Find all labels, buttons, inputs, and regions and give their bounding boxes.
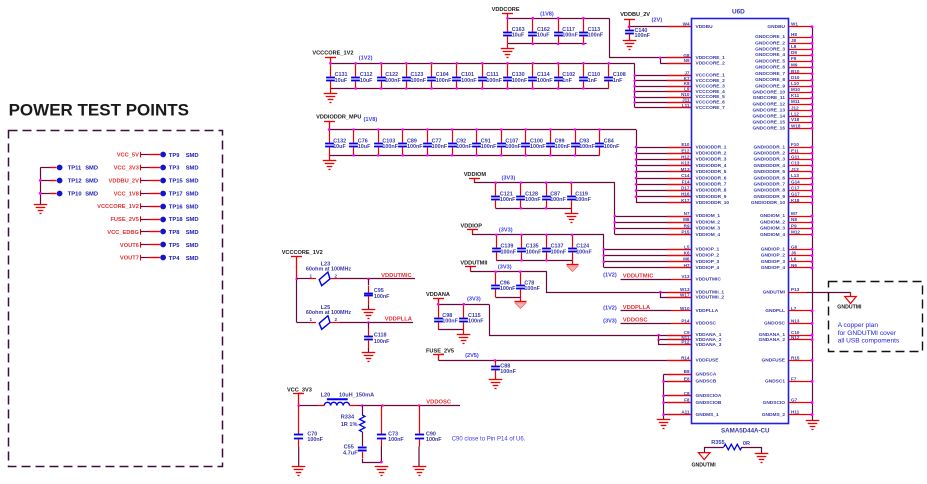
wire pin V18 to GND bus [789, 122, 813, 124]
svg-text:100nF: 100nF [388, 437, 404, 443]
wire VDDCORE gnd bus [508, 43, 587, 45]
svg-text:VCCCORE_5: VCCCORE_5 [696, 94, 726, 100]
wire FUSE_2V5 to pin R14 [438, 360, 692, 362]
capacitor C108 [604, 64, 613, 89]
wire TP12 to ground rail [40, 180, 50, 182]
wire pin G7 to GND bus [789, 402, 813, 404]
svg-text:100nF: 100nF [468, 319, 484, 325]
svg-text:60ohm at 100MHz: 60ohm at 100MHz [306, 267, 352, 273]
svg-text:GNDSCIOB: GNDSCIOB [696, 400, 722, 406]
svg-text:GNDCORE_11: GNDCORE_11 [753, 95, 786, 101]
svg-text:100nF: 100nF [555, 144, 571, 150]
wire pin J6 to GND bus [789, 255, 813, 257]
svg-text:GNDSCIOA: GNDSCIOA [696, 393, 722, 399]
ground [292, 467, 306, 476]
wire pin F10 to GND bus [789, 147, 813, 149]
svg-text:VCC_EDBG: VCC_EDBG [107, 230, 139, 236]
svg-text:VDDIOP_4: VDDIOP_4 [696, 265, 720, 271]
capacitor C128 [516, 183, 525, 209]
svg-text:H12: H12 [681, 155, 690, 160]
capacitor C123 [402, 64, 411, 89]
wire ground rail vertical [40, 168, 42, 205]
svg-text:GNDCORE_12: GNDCORE_12 [752, 101, 785, 107]
dashed annotation box [829, 282, 923, 352]
svg-text:J7: J7 [684, 70, 690, 75]
svg-text:M8: M8 [683, 217, 690, 222]
capacitor C107 [497, 130, 506, 156]
wire into annotation box [850, 292, 852, 296]
svg-text:FUSE_2V5: FUSE_2V5 [426, 349, 454, 355]
svg-text:GNDANA_2: GNDANA_2 [759, 337, 786, 343]
svg-text:VDDIODDR_5: VDDIODDR_5 [696, 169, 727, 175]
wire pin M9 to GND bus [789, 67, 813, 69]
wire pin M11 to GND bus [789, 104, 813, 106]
svg-text:VDDIOP_3: VDDIOP_3 [696, 259, 720, 265]
wire pin G11 to GND bus [789, 159, 813, 161]
svg-text:VDDCORE: VDDCORE [492, 7, 520, 13]
svg-text:SMD: SMD [186, 153, 199, 159]
ground [330, 88, 332, 93]
power symbol VCCCORE_1V2 [325, 58, 336, 64]
svg-text:SMD: SMD [186, 217, 199, 223]
svg-text:H16: H16 [681, 192, 690, 197]
capacitor C124 [568, 235, 577, 261]
svg-text:GNDCORE_1: GNDCORE_1 [755, 34, 785, 40]
power symbol VDDIOM [469, 179, 480, 183]
svg-text:D17: D17 [681, 186, 690, 191]
capacitor C102 [554, 64, 563, 89]
wire VDDIOP top bus [472, 234, 604, 236]
capacitor C140 [625, 27, 634, 41]
svg-text:E10: E10 [681, 142, 690, 147]
power ground GNDUTMI [845, 297, 857, 304]
test point TP12 SMD [57, 178, 63, 184]
wire pin H8 to GND bus [789, 37, 813, 39]
wire pin M10 to GND bus [789, 92, 813, 94]
svg-text:100nF: 100nF [562, 33, 578, 39]
svg-text:M6: M6 [683, 257, 690, 262]
svg-text:GNDCORE_13: GNDCORE_13 [752, 108, 785, 114]
wire VCCCORE_1V2 to TP16 [140, 203, 142, 209]
svg-text:M13: M13 [681, 167, 690, 172]
wire TP11 to ground rail [40, 167, 50, 169]
wire GNDUTMI net to copper plan [789, 292, 807, 294]
svg-text:P12: P12 [681, 340, 690, 345]
svg-text:VDDBU: VDDBU [696, 24, 714, 30]
svg-text:100nF: 100nF [456, 144, 472, 150]
svg-text:100nF: 100nF [407, 144, 423, 150]
svg-text:100nF: 100nF [481, 144, 497, 150]
wire pin L12 to GND bus [789, 116, 813, 118]
svg-text:K11: K11 [791, 93, 800, 98]
capacitor C122 [377, 64, 386, 89]
capacitor C73 [377, 406, 386, 447]
svg-text:100nF: 100nF [579, 144, 595, 150]
svg-text:L5: L5 [684, 244, 690, 249]
svg-text:GNDIOM_2: GNDIOM_2 [760, 219, 785, 225]
ground [489, 380, 503, 389]
wire VDDBU to pin W4 [629, 26, 692, 28]
svg-text:K8: K8 [684, 81, 690, 86]
svg-text:100nF: 100nF [501, 249, 517, 255]
svg-text:VCCCORE_3: VCCCORE_3 [696, 83, 726, 89]
svg-text:GNDSCIO: GNDSCIO [763, 400, 786, 406]
wire VCC_3V3 node [299, 405, 310, 407]
capacitor C93 [571, 130, 580, 156]
svg-text:VCCCORE_1V2: VCCCORE_1V2 [312, 51, 353, 57]
capacitor C137 [542, 235, 551, 261]
wire VDDCORE top bus [508, 18, 610, 20]
wire pin M7 to GND bus [789, 216, 813, 218]
svg-text:TP3: TP3 [169, 166, 180, 172]
capacitor C131 [326, 64, 335, 89]
capacitor C99 [546, 130, 555, 156]
svg-text:VDDIOP_1: VDDIOP_1 [696, 247, 720, 253]
svg-text:V13: V13 [681, 274, 690, 279]
test point TP11 SMD [57, 165, 63, 171]
svg-text:A11: A11 [681, 410, 690, 415]
svg-text:U6D: U6D [732, 9, 745, 16]
power symbol VDDBU_2V [624, 20, 635, 27]
wire pin N12 to GND bus [789, 339, 813, 341]
svg-text:1nF: 1nF [588, 78, 598, 84]
svg-text:VCCCORE_1: VCCCORE_1 [696, 73, 726, 79]
svg-text:GNDCORE_7: GNDCORE_7 [755, 71, 785, 77]
power symbol FUSE_2V5 [433, 355, 444, 361]
svg-text:GNDUTMI: GNDUTMI [837, 305, 862, 311]
svg-text:VCC_1V8: VCC_1V8 [114, 191, 139, 197]
ground [413, 467, 427, 476]
svg-text:1R 1%: 1R 1% [341, 422, 358, 428]
wire VDDIODDR gnd bus [329, 155, 600, 157]
ground [329, 155, 331, 160]
svg-text:P15: P15 [681, 230, 690, 235]
wire pin F7 to GND bus [789, 381, 813, 383]
svg-text:M10: M10 [791, 87, 800, 92]
capacitor C113 [579, 19, 588, 44]
svg-text:GNDCORE_10: GNDCORE_10 [752, 89, 785, 95]
svg-text:100nF: 100nF [525, 197, 541, 203]
svg-text:D9: D9 [791, 50, 797, 55]
svg-text:100nF: 100nF [524, 286, 540, 292]
svg-text:VDDUTMIC: VDDUTMIC [623, 273, 654, 279]
wire VDDANA top bus [438, 304, 489, 306]
wire pin R15 to GND bus [789, 360, 813, 362]
svg-text:100nF: 100nF [374, 294, 390, 300]
svg-text:GNDIODDR_7: GNDIODDR_7 [754, 182, 786, 188]
test point TP5 SMD [160, 242, 166, 248]
capacitor C88 [491, 361, 500, 380]
svg-text:VDDIODDR_1: VDDIODDR_1 [696, 144, 727, 150]
svg-text:E8: E8 [684, 376, 690, 381]
svg-text:100nF: 100nF [551, 249, 567, 255]
svg-text:100nF: 100nF [442, 319, 458, 325]
svg-text:100nF: 100nF [635, 33, 651, 39]
svg-text:VDDIOM: VDDIOM [464, 172, 487, 178]
capacitor C96 [491, 272, 500, 298]
power symbol VDDIODDR_MPU [324, 122, 335, 130]
ground [572, 260, 574, 265]
svg-text:VDDOSC: VDDOSC [696, 321, 717, 327]
svg-text:100nF: 100nF [588, 33, 604, 39]
capacitor C121 [491, 183, 500, 209]
ground [507, 44, 509, 49]
svg-text:GNDSCB: GNDSCB [696, 379, 717, 385]
ground [362, 310, 376, 319]
junction on ground rail [39, 179, 42, 182]
svg-text:N7: N7 [684, 211, 690, 216]
svg-text:VCCCORE_6: VCCCORE_6 [696, 100, 726, 106]
svg-text:GNDCORE_8: GNDCORE_8 [755, 77, 785, 83]
svg-text:L10: L10 [791, 81, 799, 86]
wire FUSE_2V5 to TP18 [140, 216, 142, 222]
svg-text:P14: P14 [681, 318, 690, 323]
wire VCCCORE_1V2 gnd bus [330, 88, 608, 90]
svg-text:L9: L9 [684, 87, 690, 92]
svg-text:G6: G6 [791, 244, 798, 249]
svg-text:(2V): (2V) [652, 18, 663, 24]
wire VDDUTMII gnd bus [496, 297, 521, 299]
svg-text:VDDIOM_1: VDDIOM_1 [696, 213, 721, 219]
svg-text:TP16: TP16 [169, 204, 184, 210]
svg-text:F8: F8 [684, 398, 690, 403]
svg-text:GNDIODDR_8: GNDIODDR_8 [754, 188, 786, 194]
svg-text:VDDIOM_3: VDDIOM_3 [696, 226, 721, 232]
svg-text:100nF: 100nF [500, 369, 516, 375]
svg-text:N10: N10 [681, 92, 690, 97]
wire pin J13 to GND bus [789, 171, 813, 173]
svg-text:GNDIOM_3: GNDIOM_3 [760, 226, 785, 232]
capacitor C92 [448, 130, 457, 156]
svg-text:R334: R334 [341, 415, 355, 421]
wire VDDIOP to U6D pins [603, 235, 605, 268]
svg-text:F14: F14 [682, 179, 690, 184]
wire pin J8 to GND bus [789, 43, 813, 45]
svg-text:100nF: 100nF [426, 437, 442, 443]
capacitor C87 [542, 183, 551, 209]
svg-text:M9: M9 [791, 62, 798, 67]
wire pin C10 to GND bus [789, 335, 813, 337]
svg-text:GNDIODDR_6: GNDIODDR_6 [754, 175, 786, 181]
svg-text:100nF: 100nF [526, 249, 542, 255]
svg-text:VCCCORE_1V2: VCCCORE_1V2 [282, 250, 323, 256]
svg-text:A copper plan: A copper plan [838, 322, 879, 329]
wire pin L7 to GND bus [789, 310, 813, 312]
svg-text:(3V3): (3V3) [502, 175, 516, 181]
svg-text:GNDOSC: GNDOSC [764, 321, 786, 327]
wire VCCCORE_1V2 vertical [296, 279, 298, 323]
ground [623, 41, 637, 50]
svg-text:10uF: 10uF [358, 144, 371, 150]
capacitor C139 [492, 235, 501, 261]
wire VDDIOM gnd bus [496, 208, 571, 210]
ground [571, 208, 573, 213]
capacitor C115 [459, 305, 468, 330]
svg-text:GNDIOP_1: GNDIOP_1 [761, 247, 786, 253]
svg-text:J12: J12 [791, 105, 799, 110]
svg-text:J11: J11 [682, 97, 690, 102]
wire C55 to ground join [362, 452, 364, 458]
svg-text:C8: C8 [684, 391, 690, 396]
svg-text:100nF: 100nF [382, 144, 398, 150]
svg-text:VOUT7: VOUT7 [120, 256, 139, 262]
svg-text:(1V8): (1V8) [364, 117, 378, 123]
svg-text:GNDSCA: GNDSCA [696, 371, 717, 377]
wire VDDIOM to U6D pins [614, 183, 616, 235]
wire pin C13 to GND bus [789, 165, 813, 167]
svg-text:2: 2 [335, 274, 338, 279]
capacitor C101 [452, 64, 461, 89]
svg-text:60ohm at 100MHz: 60ohm at 100MHz [306, 310, 352, 316]
wire VCC_5V to TP9 [140, 152, 142, 158]
wire VDDBU_2V to TP15 [140, 178, 142, 184]
svg-text:100nF: 100nF [436, 78, 452, 84]
svg-text:VDDIODDR_6: VDDIODDR_6 [696, 175, 727, 181]
svg-text:(3V3): (3V3) [603, 318, 617, 324]
svg-text:100nF: 100nF [500, 286, 516, 292]
svg-text:VDDBU_2V: VDDBU_2V [109, 178, 140, 184]
svg-text:R15: R15 [791, 355, 800, 360]
svg-text:J6: J6 [791, 251, 797, 256]
capacitor C91 [472, 130, 481, 156]
capacitor C100 [521, 130, 530, 156]
svg-text:TP9: TP9 [169, 153, 180, 159]
svg-text:2: 2 [335, 317, 338, 322]
svg-text:(3V3): (3V3) [498, 264, 512, 270]
wire VOUT6 to TP5 [140, 242, 142, 248]
svg-text:GNDUTMI: GNDUTMI [763, 289, 786, 295]
svg-text:GNDCORE_2: GNDCORE_2 [755, 40, 785, 46]
svg-text:VDDUTMII: VDDUTMII [460, 261, 487, 267]
wire pin G6 to GND bus [789, 249, 813, 251]
svg-text:VDDIODDR_2: VDDIODDR_2 [696, 151, 727, 157]
ground [520, 297, 522, 302]
svg-text:TP11: TP11 [68, 166, 82, 172]
wire pin L6 to GND bus [789, 261, 813, 263]
svg-text:10uF: 10uF [537, 33, 550, 39]
capacitor C132 [325, 130, 334, 156]
svg-text:GNDIOP_4: GNDIOP_4 [761, 265, 786, 271]
svg-text:GNDCORE_9: GNDCORE_9 [755, 83, 785, 89]
svg-text:SMD: SMD [186, 256, 199, 262]
power symbol VDDUTMII [465, 267, 476, 272]
svg-text:C17: C17 [791, 186, 800, 191]
svg-text:GNDPLL: GNDPLL [765, 308, 785, 314]
svg-text:M12: M12 [791, 230, 800, 235]
svg-text:GNDSC1: GNDSC1 [765, 379, 785, 385]
svg-text:(2V5): (2V5) [465, 353, 479, 359]
svg-text:K17: K17 [681, 198, 690, 203]
svg-text:GNDIODDR_9: GNDIODDR_9 [754, 194, 786, 200]
svg-text:100nF: 100nF [461, 78, 477, 84]
svg-text:VDDANA: VDDANA [426, 292, 450, 298]
wire VDDUTMII top bus [471, 271, 547, 273]
svg-text:H11: H11 [791, 410, 800, 415]
wire VCC_1V8 to TP17 [140, 191, 142, 197]
svg-text:VDDIODDR_MPU: VDDIODDR_MPU [316, 114, 361, 120]
svg-text:F10: F10 [791, 142, 799, 147]
svg-text:100nF: 100nF [411, 78, 427, 84]
svg-text:VOUT6: VOUT6 [120, 243, 139, 249]
svg-text:VDDUTMIC: VDDUTMIC [381, 273, 412, 279]
svg-text:10uF: 10uF [512, 33, 525, 39]
svg-text:(1V2): (1V2) [603, 305, 617, 311]
wire VDDIODDR to U6D pins [636, 130, 638, 203]
capacitor C111 [478, 64, 487, 89]
svg-text:100nF: 100nF [512, 78, 528, 84]
svg-text:10uF: 10uF [360, 78, 373, 84]
ground [806, 421, 820, 430]
wire pin N8 to GND bus [789, 222, 813, 224]
svg-text:K7: K7 [684, 76, 690, 81]
svg-text:100nF: 100nF [385, 78, 401, 84]
svg-text:L8: L8 [791, 44, 797, 49]
capacitor C84 [595, 130, 604, 156]
wire pin L10 to GND bus [789, 86, 813, 88]
wire pin N13 to GND bus [789, 323, 813, 325]
svg-text:VCCCORE_1V2: VCCCORE_1V2 [97, 204, 139, 210]
svg-text:GNDMS_1: GNDMS_1 [696, 412, 720, 418]
svg-text:VCC_5V: VCC_5V [117, 153, 139, 159]
capacitor C110 [579, 64, 588, 89]
svg-text:VCCCORE_2: VCCCORE_2 [696, 78, 726, 84]
wire pin L8 to GND bus [789, 49, 813, 51]
svg-text:L11: L11 [682, 103, 690, 108]
svg-text:SMD: SMD [186, 204, 199, 210]
svg-text:VDDBU_2V: VDDBU_2V [620, 12, 650, 18]
wire pin D9 to GND bus [789, 55, 813, 57]
svg-text:VCC_3V3: VCC_3V3 [287, 388, 312, 394]
svg-text:VDDIODDR_9: VDDIODDR_9 [696, 194, 727, 200]
svg-text:N8: N8 [791, 217, 797, 222]
svg-text:SMD: SMD [85, 179, 98, 185]
test point TP4 SMD [160, 255, 166, 261]
svg-text:POWER TEST POINTS: POWER TEST POINTS [9, 100, 189, 119]
capacitor C163 [503, 19, 512, 44]
svg-text:(3V3): (3V3) [467, 297, 481, 303]
wire pin D10 to GND bus [789, 80, 813, 82]
svg-text:J8: J8 [791, 38, 797, 43]
svg-text:G14: G14 [791, 179, 800, 184]
wire VDDANA gnd bus [438, 329, 464, 331]
svg-text:C118: C118 [374, 332, 387, 338]
ground [375, 467, 389, 476]
svg-text:VDDCORE_1: VDDCORE_1 [696, 55, 726, 61]
svg-text:R9: R9 [684, 223, 690, 228]
wire pin L13 to GND bus [789, 178, 813, 180]
wire pin F9 to GND bus [789, 61, 813, 63]
wire pin J12 to GND bus [789, 110, 813, 112]
ground [657, 420, 671, 429]
capacitor C77 [423, 130, 432, 156]
svg-text:SMD: SMD [186, 179, 199, 185]
svg-text:100nF: 100nF [432, 144, 448, 150]
wire to L25 [297, 322, 310, 324]
wire pin C17 to GND bus [789, 190, 813, 192]
wire pin M12 to GND bus [789, 234, 813, 236]
svg-text:VDDIODDR_7: VDDIODDR_7 [696, 182, 727, 188]
capacitor C98 [434, 305, 443, 330]
svg-text:VDDFUSE: VDDFUSE [696, 358, 720, 364]
svg-text:10uH_150mA: 10uH_150mA [339, 393, 374, 399]
svg-text:W18: W18 [791, 123, 801, 128]
svg-text:GNDMS_2: GNDMS_2 [762, 412, 786, 418]
wire VDDIODDR top bus [329, 129, 636, 131]
svg-text:GNDIODDR_5: GNDIODDR_5 [754, 169, 786, 175]
svg-text:W10: W10 [680, 306, 690, 311]
ground [761, 447, 763, 454]
svg-text:100nF: 100nF [550, 197, 566, 203]
